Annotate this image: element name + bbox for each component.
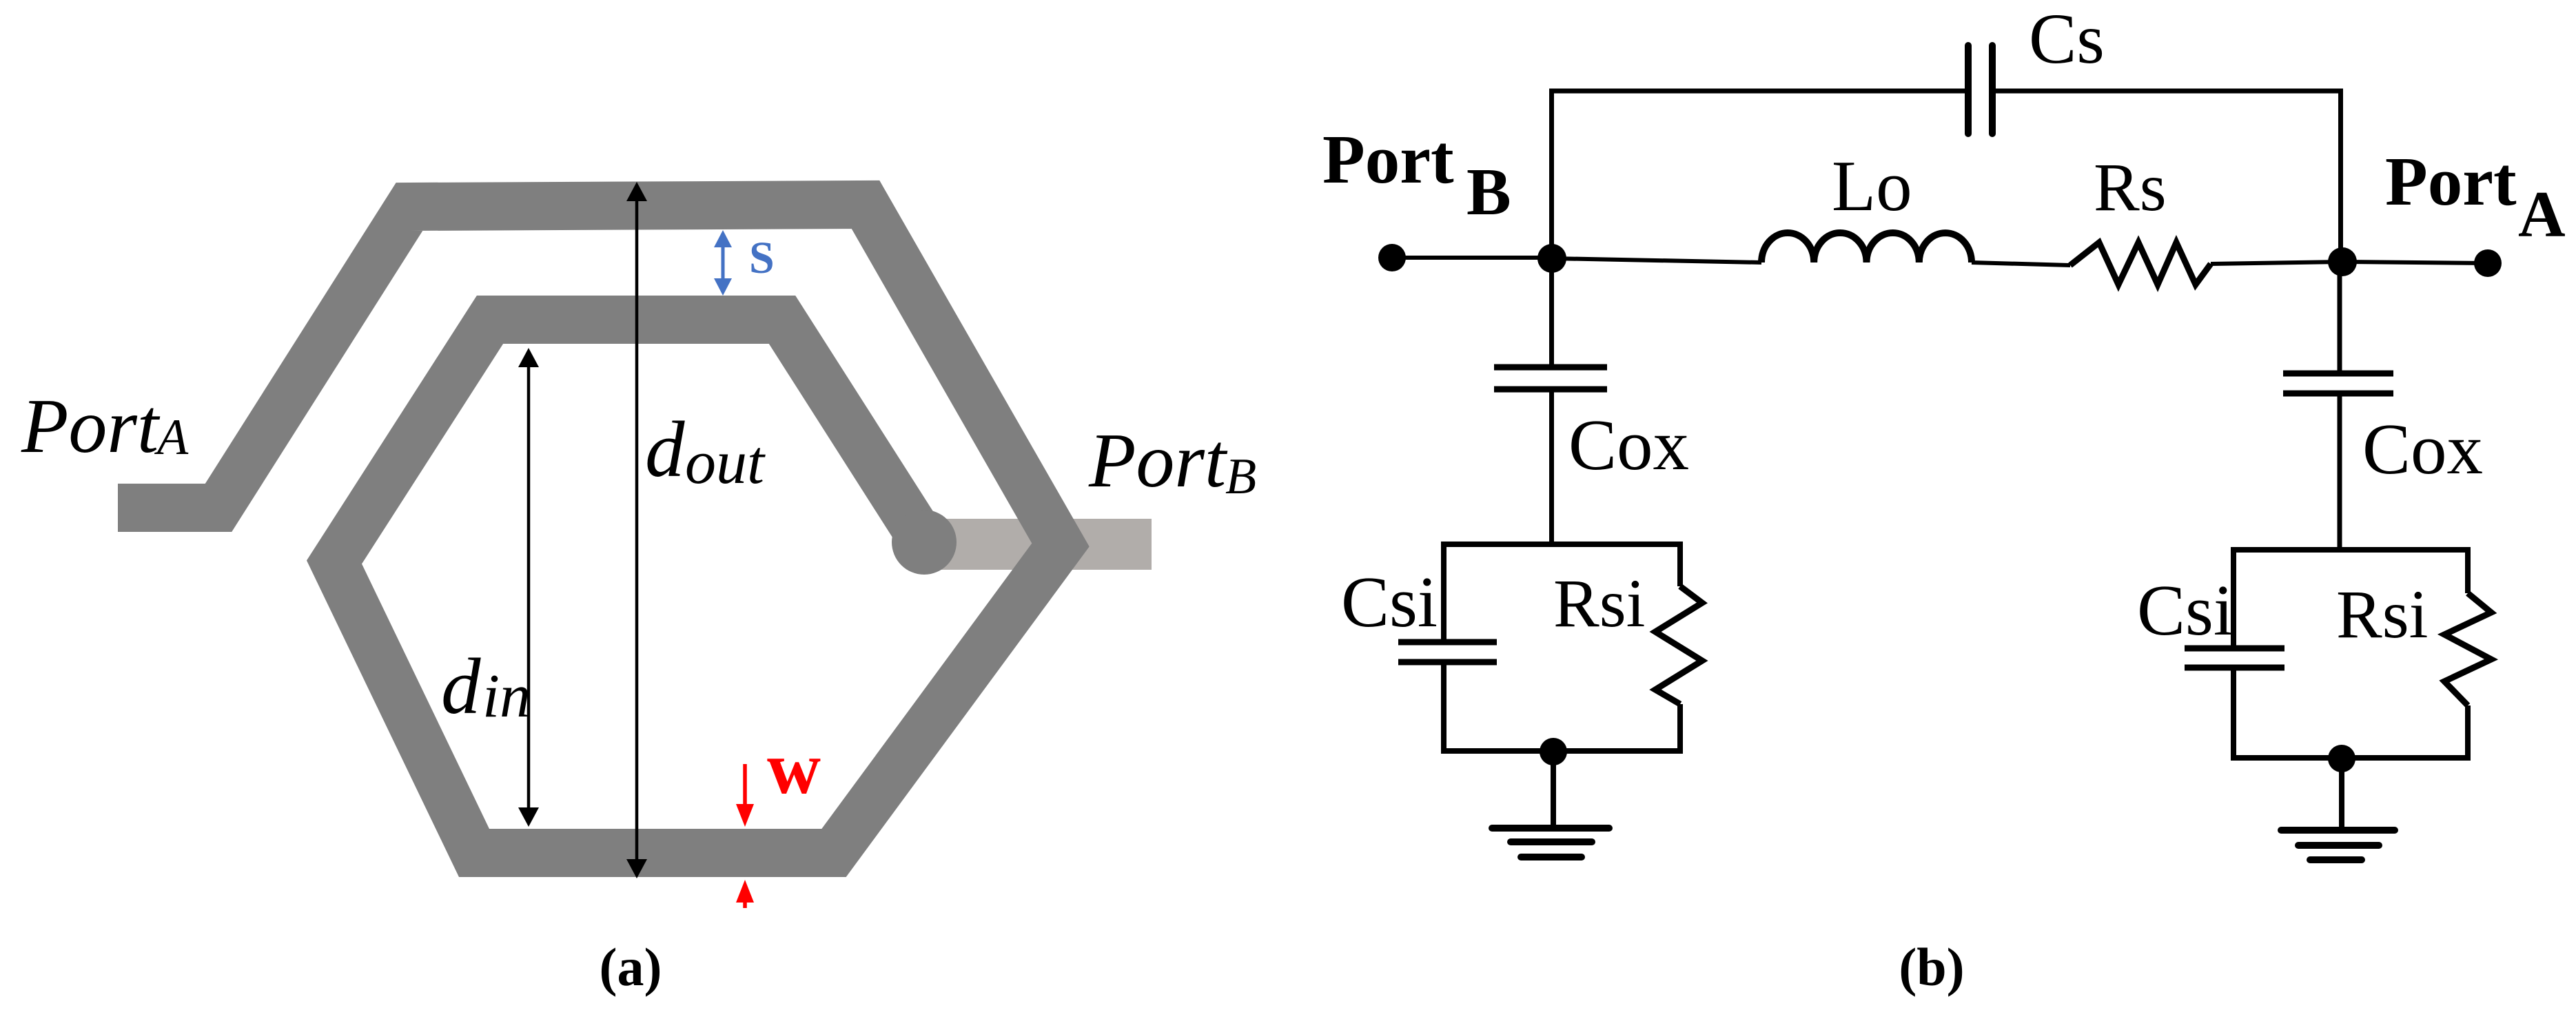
s arrow (blue, double-headed)	[714, 230, 732, 296]
svg-text:A: A	[2518, 178, 2566, 251]
ground (left)	[1492, 825, 1609, 832]
wire: port B terminal to node B	[1392, 256, 1552, 260]
svg-text:Port: Port	[2385, 143, 2517, 220]
inductor Lo	[1761, 233, 1972, 262]
right box left lower side	[2231, 670, 2236, 761]
d_out arrow (double-headed vertical)	[626, 182, 647, 878]
node B junction dot	[1537, 244, 1566, 273]
wire: node B to inductor	[1552, 258, 1761, 262]
svg-text:Port: Port	[1088, 418, 1228, 504]
resistor Rsi (left)	[1655, 586, 1702, 704]
svg-text:Cs: Cs	[2029, 0, 2105, 79]
wire: resistor to node A to port A terminal	[2211, 262, 2488, 264]
right vertical of top loop	[2338, 89, 2343, 262]
left box right upper stub	[1677, 542, 1683, 586]
right RC box top	[2233, 547, 2468, 553]
svg-text:Rsi: Rsi	[2336, 576, 2428, 652]
svg-text:Port: Port	[21, 384, 161, 469]
svg-text:out: out	[685, 429, 766, 497]
left box right lower stub	[1677, 704, 1683, 754]
capacitor Cox (right) plates	[2283, 371, 2393, 377]
svg-text:in: in	[482, 662, 531, 730]
right box left upper side	[2231, 547, 2236, 646]
capacitor Cs plates	[1965, 45, 1972, 134]
underpass bar (Port B lead, light gray)	[924, 519, 1152, 570]
right box right upper stub	[2465, 547, 2471, 593]
wire: Cox to box top	[1549, 392, 1554, 544]
left branch: node B down to Cox	[1549, 258, 1554, 364]
resistor Rs	[2070, 243, 2211, 285]
left box left lower side	[1441, 665, 1447, 754]
wire: Cox to right box top	[2338, 396, 2342, 550]
capacitor Cox (left) plates	[1494, 364, 1607, 371]
ground junction dot (right)	[2328, 745, 2355, 772]
d_in arrow (double-headed vertical)	[518, 348, 539, 827]
node A junction dot	[2328, 247, 2357, 276]
capacitor Csi (right) plates	[2185, 646, 2284, 652]
svg-text:B: B	[1466, 155, 1511, 229]
wire: node B up to top loop	[1549, 89, 1554, 259]
wire: inductor to resistor	[1972, 262, 2070, 265]
left box bottom	[1444, 748, 1680, 754]
svg-text:B: B	[1225, 449, 1256, 505]
svg-text:d: d	[645, 406, 685, 493]
right box bottom	[2233, 755, 2468, 761]
left box left upper side	[1441, 542, 1447, 639]
ground junction dot (left)	[1540, 738, 1567, 765]
right branch: node A down to Cox	[2338, 262, 2342, 371]
svg-text:Rs: Rs	[2094, 149, 2167, 225]
ground stub (right)	[2339, 758, 2344, 829]
terminal dot port A	[2474, 249, 2502, 277]
terminal dot port B	[1378, 244, 1406, 271]
ground (right)	[2281, 827, 2395, 834]
right box right lower stub	[2465, 705, 2471, 761]
svg-text:d: d	[441, 643, 481, 730]
top wire right (Cs to right corner)	[1992, 89, 2341, 94]
svg-text:Csi: Csi	[1341, 561, 1438, 642]
left RC box top	[1444, 542, 1680, 547]
svg-text:Rsi: Rsi	[1553, 565, 1645, 641]
resistor Rsi (right)	[2444, 593, 2491, 705]
svg-text:(b): (b)	[1899, 937, 1964, 997]
svg-text:A: A	[154, 409, 189, 466]
svg-text:Csi: Csi	[2137, 570, 2233, 650]
ground stub (left)	[1551, 751, 1556, 827]
spiral trace (outer turn + feed + inner turn)	[118, 205, 1061, 853]
top wire left (to Cs)	[1549, 89, 1969, 94]
svg-text:Cox: Cox	[2362, 409, 2483, 489]
svg-text:Port: Port	[1322, 121, 1454, 198]
svg-text:Cox: Cox	[1568, 404, 1689, 485]
svg-text:(a): (a)	[600, 937, 662, 997]
svg-text:w: w	[767, 728, 821, 810]
svg-text:S: S	[749, 233, 775, 283]
round via cap at inner-turn end	[892, 510, 957, 575]
w arrows (red)	[736, 764, 754, 908]
svg-text:Lo: Lo	[1832, 145, 1912, 226]
capacitor Csi (left) plates	[1398, 639, 1497, 646]
